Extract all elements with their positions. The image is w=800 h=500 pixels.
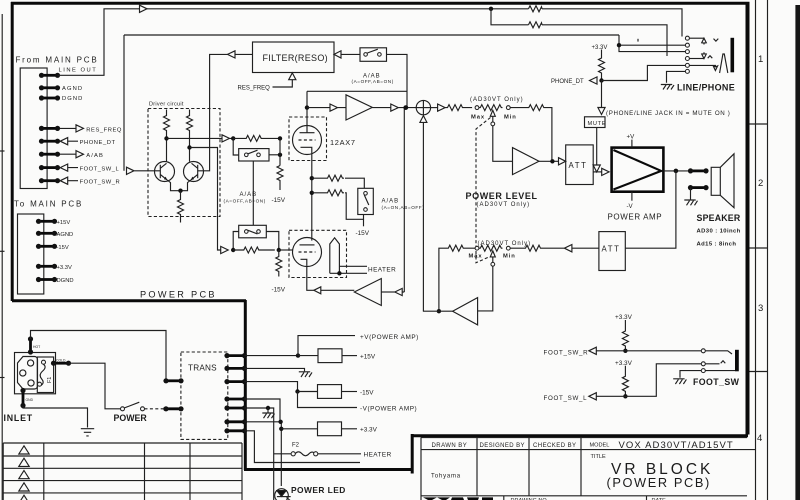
scan edge black band xyxy=(795,5,800,500)
svg-text:+V(POWER AMP): +V(POWER AMP) xyxy=(360,334,419,341)
trans secondary pin s2 xyxy=(224,366,247,371)
svg-text:To MAIN PCB: To MAIN PCB xyxy=(14,200,83,209)
revision table column a xyxy=(43,443,45,500)
A/AB switch S1 box xyxy=(239,149,269,161)
svg-text:+3.3V: +3.3V xyxy=(57,265,72,271)
contact4 hat mark xyxy=(708,56,713,59)
V1 plate wire to S4 node xyxy=(307,90,407,92)
resistor feedback left xyxy=(439,245,475,311)
J2 pin +3.3V xyxy=(36,264,57,269)
J1 pin A/AB xyxy=(39,152,60,157)
T2 collector junction dot xyxy=(187,145,191,149)
title block bottom row divider 2 xyxy=(646,496,648,500)
wire buffer input from main node xyxy=(403,108,405,292)
right margin zone tick 1-2 xyxy=(750,123,768,125)
Q1 emitter wire xyxy=(167,180,180,191)
trans secondary pin s6 xyxy=(224,419,247,424)
contact4 switch stub xyxy=(689,58,704,60)
wire plate node to U1 xyxy=(307,107,330,109)
V2 cathode wire to buffer xyxy=(307,266,314,291)
title block column line 1 xyxy=(476,438,478,496)
revision table outline xyxy=(3,443,242,500)
svg-text:+3.3V: +3.3V xyxy=(592,45,608,51)
FILTER(RESO) box xyxy=(253,42,335,73)
power amp output wire xyxy=(663,170,689,172)
resistor after summing node xyxy=(445,105,472,111)
wire U3 output to summing xyxy=(423,310,453,312)
filter output arrow left xyxy=(228,51,253,58)
J1 pin FOOT_SW_L xyxy=(39,165,60,170)
svg-text:+V: +V xyxy=(627,134,636,141)
wire ATT1 to power amp xyxy=(593,171,602,173)
connector J2 outline xyxy=(18,214,44,294)
wire Q1 collector to grid node xyxy=(167,137,223,139)
jack spring contact xyxy=(720,54,728,73)
revision triangle 3 xyxy=(19,471,29,479)
wire S1 input xyxy=(233,138,239,155)
wire Rk1 to S3 top xyxy=(345,178,364,188)
s3 node dot xyxy=(295,389,299,393)
jack contact 5 xyxy=(685,63,689,67)
right margin zone tick 3-4 xyxy=(750,371,768,373)
heater junction dot xyxy=(337,271,341,275)
J2 pin -15V xyxy=(36,244,57,249)
wire net B to jack contacts 2-3 xyxy=(619,35,685,52)
arrow FOOT_SW_R xyxy=(589,347,597,354)
arrow FOOT_SW_L xyxy=(589,393,597,400)
wire HOT to trans xyxy=(31,331,167,379)
svg-text:Min: Min xyxy=(504,114,517,120)
revision table column b xyxy=(144,443,146,500)
fuse F1 box xyxy=(37,357,53,393)
wire S1 output xyxy=(269,154,280,156)
contact4 arrow down xyxy=(702,52,707,58)
wire sleeve to ground xyxy=(680,371,735,378)
jack contact 3 xyxy=(685,50,689,54)
PHONE_DT in arrow xyxy=(60,138,78,145)
wire filter output to driver xyxy=(198,54,228,170)
svg-text:DESIGNED BY: DESIGNED BY xyxy=(480,443,525,449)
svg-text:FOOT_SW_R: FOOT_SW_R xyxy=(80,180,121,186)
svg-text:Driver circuit: Driver circuit xyxy=(149,101,184,107)
wire footsw R row xyxy=(596,351,732,354)
ATT1 box xyxy=(566,145,594,185)
right margin column line B xyxy=(767,0,769,500)
sheet right thick border xyxy=(746,2,750,435)
regulator box -15V xyxy=(298,391,318,393)
revision triangle 4 xyxy=(19,483,29,491)
revision triangle 5 (cut) xyxy=(19,495,29,500)
svg-text:CHECKED BY: CHECKED BY xyxy=(533,443,577,449)
S1 lever and contacts xyxy=(248,150,258,154)
POWER PCB boundary thick line right xyxy=(244,300,247,470)
TRANS dashed box xyxy=(181,352,228,439)
wire s6 down to LED xyxy=(245,422,282,486)
footsw R node dot xyxy=(623,349,627,353)
title block column line 3 xyxy=(580,438,582,496)
wire VR2 wiper to U3 xyxy=(478,266,493,311)
chassis ground at jack xyxy=(661,85,674,90)
svg-text:-15V: -15V xyxy=(57,245,69,251)
svg-text:POWER PCB: POWER PCB xyxy=(140,290,217,300)
title block outline xyxy=(421,438,756,500)
cathode resistor Rk2 xyxy=(312,190,344,196)
svg-text:PHONE_DT: PHONE_DT xyxy=(551,79,584,85)
J1 pin DGND xyxy=(39,95,60,100)
wire footsw L row xyxy=(596,364,719,397)
title block bottom row divider 1 xyxy=(503,496,505,500)
U2 output wire xyxy=(539,160,559,162)
svg-text:4: 4 xyxy=(757,433,762,444)
svg-text:LINE/PHONE: LINE/PHONE xyxy=(677,82,735,92)
footsw L hat mark xyxy=(721,361,726,364)
footsw R contact circle xyxy=(701,349,705,353)
svg-text:Min: Min xyxy=(503,253,516,259)
svg-text:AD30 : 10inch: AD30 : 10inch xyxy=(697,228,741,234)
wire res_freq to filter xyxy=(273,80,293,87)
feedback resistor VR1-U2 xyxy=(510,105,552,162)
svg-text:Tohyama: Tohyama xyxy=(431,474,461,480)
arrow into cathode xyxy=(314,287,355,294)
chassis ground at speaker xyxy=(684,200,697,205)
svg-text:DRAWN BY: DRAWN BY xyxy=(432,443,468,449)
arrow into U1 xyxy=(330,104,346,111)
PHONE_DT node dot xyxy=(599,78,603,82)
wire to tube2 grid xyxy=(279,249,293,251)
wire contact6 to ground xyxy=(667,71,686,82)
svg-text:VOX AD30VT/AD15VT: VOX AD30VT/AD15VT xyxy=(619,440,734,451)
resistor Rb (T2 collector load) xyxy=(187,110,193,162)
svg-text:ATT: ATT xyxy=(569,161,588,170)
svg-text:TITLE: TITLE xyxy=(591,454,606,460)
V1 cathode chain down xyxy=(311,153,313,241)
tube V1 12AX7 xyxy=(293,126,322,155)
arrow grid wire xyxy=(222,135,233,142)
grid node dot xyxy=(231,136,235,140)
wire S2 output right xyxy=(266,232,279,251)
stage2 grid node dot left xyxy=(231,248,235,252)
LED D1 xyxy=(275,489,292,500)
fuse F2 xyxy=(295,452,316,456)
svg-text:POWER AMP: POWER AMP xyxy=(608,212,663,221)
inlet outer box xyxy=(15,353,56,394)
svg-text:F1: F1 xyxy=(47,377,53,383)
svg-text:ATT: ATT xyxy=(602,244,621,253)
wire summing node output xyxy=(431,107,438,109)
power amp triangle xyxy=(613,150,661,190)
svg-text:(AD30VT Only): (AD30VT Only) xyxy=(477,202,531,208)
arrow on LINE OUT wire xyxy=(140,5,148,12)
svg-text:-15V: -15V xyxy=(272,197,286,204)
svg-text:12AX7: 12AX7 xyxy=(330,138,356,147)
wire S2 input left xyxy=(233,232,239,251)
pot VR1 body xyxy=(479,105,503,111)
J1 pin LINE OUT xyxy=(39,73,60,78)
s5 ground stub xyxy=(267,408,269,413)
wire grid node down xyxy=(279,138,281,165)
svg-text:From MAIN PCB: From MAIN PCB xyxy=(16,56,99,65)
trans primary pin 1 xyxy=(163,378,183,383)
wire buffer to arrow xyxy=(381,291,395,293)
contact1 v mark xyxy=(714,39,719,42)
s5 ground dot xyxy=(266,406,270,410)
resistor on line-out jack wire xyxy=(529,6,543,12)
contact5 stub to tip xyxy=(689,65,717,70)
arrow into driver base xyxy=(127,167,161,174)
svg-text:Max: Max xyxy=(469,254,483,260)
+3.3V tap dot xyxy=(279,427,283,431)
svg-text:-15V: -15V xyxy=(356,230,370,237)
earth ground symbol xyxy=(81,429,94,436)
svg-text:-V(POWER AMP): -V(POWER AMP) xyxy=(360,405,417,412)
wire to -V(POWER AMP) xyxy=(298,392,358,408)
svg-text:AGND: AGND xyxy=(62,86,83,92)
wire second tap xyxy=(491,9,667,56)
wire s4 join s6 xyxy=(245,399,281,422)
junction dot net B jack xyxy=(617,43,621,47)
arrow into power amp xyxy=(602,168,609,175)
ATT2 box xyxy=(599,232,625,271)
A/AB out arrow xyxy=(60,151,84,158)
inlet socket shape xyxy=(18,357,38,390)
arrow down into mute note xyxy=(598,108,605,115)
S3 contacts and lever xyxy=(364,195,369,205)
svg-text:DGND: DGND xyxy=(57,278,74,284)
trans secondary pin s4 xyxy=(224,396,247,401)
s6 s4 junction dot xyxy=(278,420,282,424)
svg-text:3: 3 xyxy=(758,303,763,314)
amp U2 xyxy=(513,148,540,175)
svg-text:Ad15 : 8inch: Ad15 : 8inch xyxy=(697,241,737,247)
svg-text:HEATER: HEATER xyxy=(364,452,392,459)
HOT pin bar xyxy=(28,336,33,354)
amp U3 (left facing) xyxy=(453,298,478,325)
J1 pin RES_FREQ xyxy=(39,126,60,131)
wire Q2 collector to stage2 xyxy=(190,148,221,251)
title block column line 2 xyxy=(528,438,530,496)
arrow ATT2 output left xyxy=(542,245,572,252)
J2 pin AGND xyxy=(36,231,57,236)
svg-text:+3.3V: +3.3V xyxy=(615,360,633,367)
svg-text:MUTE: MUTE xyxy=(588,121,607,127)
wire VR1 wiper to amp U2 xyxy=(493,126,513,162)
svg-text:1: 1 xyxy=(758,54,763,65)
inner thin left frame line xyxy=(1,14,3,500)
junction dot top wire xyxy=(489,7,493,11)
trans secondary pin s5 xyxy=(224,405,247,410)
filter input arrow xyxy=(334,51,360,58)
sheet top thick border xyxy=(11,2,750,5)
wire MUTE down xyxy=(596,128,598,166)
pot VR2 body xyxy=(479,245,503,251)
VOX logo mark xyxy=(423,497,493,500)
cathode resistor Rk1 xyxy=(312,175,344,181)
resistor feedback right xyxy=(510,245,541,251)
jack contact 2 xyxy=(685,43,689,47)
svg-text:(AD30VT Only): (AD30VT Only) xyxy=(470,97,524,103)
svg-text:-15V: -15V xyxy=(360,389,374,396)
driver circuit dashed box xyxy=(148,109,220,217)
wire LINE OUT to jack top xyxy=(147,9,682,37)
+V pin xyxy=(631,140,633,148)
fuse F1 element xyxy=(40,364,45,386)
POWER AMP box xyxy=(612,148,664,192)
pullup resistor footsw R xyxy=(622,320,628,350)
svg-text:(PHONE/LINE JACK IN = MUTE ON: (PHONE/LINE JACK IN = MUTE ON ) xyxy=(606,110,731,117)
wire U1 output xyxy=(372,107,391,109)
trans primary pin 2 xyxy=(163,406,183,411)
feedback wire from output xyxy=(625,171,676,248)
S1 output junction dot xyxy=(278,153,282,157)
right margin column line A xyxy=(755,0,757,500)
arrow into summing node bottom xyxy=(420,116,427,123)
svg-text:FOOT_SW_R: FOOT_SW_R xyxy=(544,349,589,356)
wire s3 to -15V node xyxy=(245,382,298,392)
amp U1 after tube1 xyxy=(346,95,372,120)
revision triangle 2 xyxy=(19,458,29,466)
emitter resistor xyxy=(178,191,184,223)
svg-text:GND: GND xyxy=(26,398,34,402)
sheet left thick border xyxy=(11,2,14,301)
A/AB switch S3 box xyxy=(358,188,374,214)
left frame zone tick 1 xyxy=(0,150,5,152)
svg-text:RES_FREQ: RES_FREQ xyxy=(86,127,122,133)
svg-text:F2: F2 xyxy=(292,442,300,448)
wire to +V(POWER AMP) xyxy=(298,336,355,356)
drawing area step thick vertical xyxy=(411,434,414,474)
speaker - wire to ground xyxy=(690,188,692,200)
J1 pin FOOT_SW_R xyxy=(39,178,60,183)
svg-text:(A=OFF,AB=ON): (A=OFF,AB=ON) xyxy=(224,198,266,203)
arrow up into filter xyxy=(289,73,296,80)
speaker driver symbol xyxy=(711,154,734,208)
wire net B horizontal xyxy=(124,34,619,36)
FOOT_SW_L in arrow xyxy=(60,164,78,171)
svg-text:HOT: HOT xyxy=(33,345,40,349)
tube V2 dashed enclosure xyxy=(289,230,347,277)
drawing area bottom thick border xyxy=(411,434,748,437)
svg-text:MODEL: MODEL xyxy=(590,442,610,448)
wire Rk2 loop to S3 bottom xyxy=(345,193,364,220)
wire s7 heater return xyxy=(245,431,361,463)
arrow U1 output xyxy=(391,104,416,111)
wire s2 to ground xyxy=(245,368,305,371)
FOOT_SW jack bar xyxy=(735,350,739,372)
V1 plate lead up xyxy=(306,91,308,132)
S4 contact circles and lever xyxy=(367,49,378,53)
transistor Q2 xyxy=(184,162,204,182)
stub to -15V under S3 xyxy=(363,219,365,226)
jack contact 1 xyxy=(685,36,689,40)
stage2 bias resistor xyxy=(276,250,282,277)
svg-text:A/AB: A/AB xyxy=(382,198,400,204)
stage2 grid resistor xyxy=(233,247,275,253)
wire s5 to heater fuse xyxy=(245,408,292,500)
footsw L contact circle xyxy=(701,362,705,366)
inlet pin bottom xyxy=(28,380,34,386)
svg-text:POWER LED: POWER LED xyxy=(291,485,346,495)
VR1 wiper arrow xyxy=(490,110,495,122)
S1-S2 gang wire xyxy=(252,161,254,225)
wire net B left vertical to driver base xyxy=(123,35,125,171)
jack contact 6 xyxy=(685,69,689,73)
svg-text:FOOT_SW: FOOT_SW xyxy=(693,377,740,387)
pullup resistor R phone_dt xyxy=(599,50,605,81)
dashed wire switch to trans xyxy=(145,408,164,410)
MUTE box xyxy=(585,117,606,128)
common emitter dot xyxy=(178,189,182,193)
svg-text:HEATER: HEATER xyxy=(368,267,396,274)
svg-text:-15V: -15V xyxy=(272,286,286,293)
summing node circle xyxy=(416,100,430,114)
s1 node dot xyxy=(296,353,300,357)
revision triangle 1 xyxy=(19,446,29,454)
main node dot xyxy=(403,105,408,110)
left frame zone tick 3 xyxy=(0,377,5,379)
grid resistor R1 xyxy=(233,135,280,141)
heater wire upper xyxy=(339,265,367,267)
svg-text:DGND: DGND xyxy=(62,96,83,102)
arrow into ATT1 xyxy=(559,158,566,165)
svg-text:(AD30VT Only): (AD30VT Only) xyxy=(478,241,532,247)
A/AB switch S2 box xyxy=(239,225,267,238)
wire F2 to heater xyxy=(318,453,361,455)
revision table column c xyxy=(189,443,191,500)
tube V2 12AX7 xyxy=(293,238,322,267)
svg-text:+3.3V: +3.3V xyxy=(360,427,378,434)
stage2 grid node dot right xyxy=(277,248,281,252)
POWER switch xyxy=(125,402,140,408)
chassis ground s5 xyxy=(262,413,274,418)
speaker terminal bar - xyxy=(688,185,709,190)
grid node dot 2 xyxy=(278,136,282,140)
regulator box +3.3V xyxy=(281,428,317,430)
RES_FREQ out arrow xyxy=(60,125,84,132)
svg-text:SPEAKER: SPEAKER xyxy=(697,213,741,223)
VR2 wiper arrow xyxy=(490,251,495,263)
svg-text:LINE OUT: LINE OUT xyxy=(59,68,98,74)
FOOT_SW_R in arrow xyxy=(60,177,78,184)
jack contact 4 xyxy=(685,57,689,61)
footsw sleeve contact circle xyxy=(701,369,705,373)
POWER PCB boundary thick line top xyxy=(12,299,246,302)
regulator box +15V xyxy=(298,355,318,357)
COLD pin bar xyxy=(51,361,71,366)
U2 output dot xyxy=(550,159,554,163)
svg-text:FOOT_SW_L: FOOT_SW_L xyxy=(544,395,588,402)
speaker terminal bar + xyxy=(688,168,709,173)
PHONE_DT arrow left xyxy=(590,77,598,84)
svg-text:RES_FREQ: RES_FREQ xyxy=(238,85,271,91)
contact1 arrow up xyxy=(702,38,707,44)
svg-text:(A=OFF,AB=ON): (A=OFF,AB=ON) xyxy=(352,79,394,84)
cathode dot a xyxy=(310,176,314,180)
plate node dot xyxy=(305,105,309,109)
J1 pin AGND xyxy=(39,85,60,90)
inlet pin mid xyxy=(20,370,26,376)
svg-text:-V: -V xyxy=(627,203,634,210)
arrow after summing node xyxy=(438,104,446,111)
cathode dot b xyxy=(310,191,314,195)
svg-text:POWER: POWER xyxy=(114,413,148,423)
T1 collector junction dot xyxy=(164,136,168,140)
buffer amp U4 (left facing) xyxy=(354,279,381,306)
svg-text:POWER LEVEL: POWER LEVEL xyxy=(466,191,538,201)
heater wire lower xyxy=(330,272,367,274)
POWER PCB boundary thick line bottom xyxy=(244,468,413,471)
GND pin bar xyxy=(20,388,25,408)
svg-text:COLD: COLD xyxy=(56,359,66,363)
